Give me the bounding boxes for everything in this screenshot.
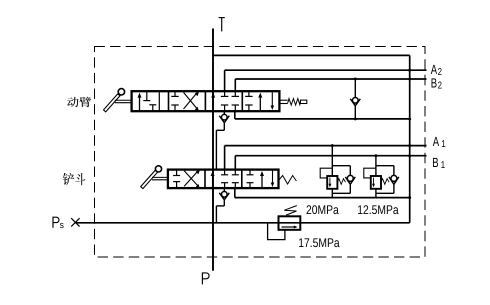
svg-text:B: B [432, 155, 438, 170]
svg-text:12.5MPa: 12.5MPa [357, 203, 398, 217]
svg-text:1: 1 [441, 139, 446, 150]
svg-text:20MPa: 20MPa [306, 203, 339, 217]
svg-text:s: s [60, 220, 65, 231]
svg-text:B: B [431, 75, 437, 90]
svg-text:17.5MPa: 17.5MPa [298, 236, 339, 250]
svg-text:2: 2 [438, 67, 443, 78]
svg-text:1: 1 [441, 160, 446, 171]
svg-text:A: A [433, 134, 439, 149]
svg-text:2: 2 [438, 80, 443, 91]
